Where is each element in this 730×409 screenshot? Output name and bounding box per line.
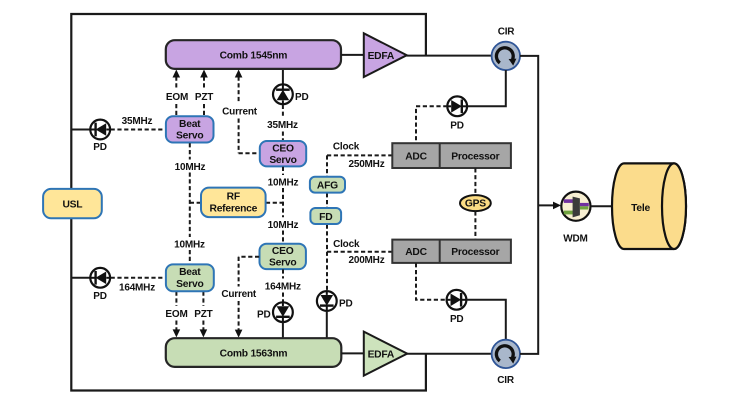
- svg-text:10MHz: 10MHz: [268, 220, 299, 231]
- svg-text:Clock: Clock: [333, 239, 360, 250]
- svg-text:Processor: Processor: [451, 152, 499, 163]
- wire: mid PD to CEO Servo dashed, 35MHz: [282, 105, 284, 141]
- wire: PD to comb1563 (solid, right): [326, 311, 328, 338]
- svg-text:164MHz: 164MHz: [265, 281, 301, 292]
- Comb 1545nm box: [166, 40, 341, 69]
- svg-text:Servo: Servo: [176, 279, 203, 290]
- svg-text:PD: PD: [93, 142, 107, 153]
- photodiode PD (bottom-left): [90, 268, 110, 288]
- telescope Tele (cylinder): [612, 163, 686, 249]
- svg-text:EDFA: EDFA: [368, 51, 395, 62]
- Beat Servo box (bottom): [166, 264, 214, 291]
- Beat Servo box (top): [166, 116, 214, 142]
- wire: FD chain vertical: [326, 155, 328, 290]
- wire: CIR outputs to WDM trunk: [520, 56, 538, 354]
- wire: PD to CIR (solid, bottom-right): [466, 300, 506, 340]
- svg-text:Comb 1563nm: Comb 1563nm: [220, 349, 288, 360]
- wire: EDFA to CIR (solid, bottom): [407, 353, 492, 355]
- svg-text:200MHz: 200MHz: [348, 255, 384, 266]
- RF Reference box: [201, 188, 266, 218]
- svg-text:GPS: GPS: [465, 199, 486, 210]
- amplifier EDFA (top): [364, 33, 407, 77]
- svg-text:10MHz: 10MHz: [175, 162, 206, 173]
- svg-text:PD: PD: [93, 291, 107, 302]
- wire: GPS to Processor (dashed, bottom): [474, 211, 476, 239]
- AFG box: [310, 177, 345, 193]
- wire: 10MHz left vertical chain: [190, 143, 201, 264]
- svg-text:164MHz: 164MHz: [119, 283, 155, 294]
- svg-text:PD: PD: [295, 92, 309, 103]
- svg-text:Comb 1545nm: Comb 1545nm: [220, 51, 288, 62]
- wire: EOM dashed (bottom): [173, 292, 181, 338]
- svg-text:AFG: AFG: [317, 181, 338, 192]
- amplifier EDFA (bottom): [364, 332, 407, 376]
- wire: EDFA to CIR (solid, passes border): [407, 55, 492, 57]
- photodiode PD (bottom-right): [447, 290, 467, 310]
- wire: top PD to Beat Servo (dashed, 35MHz): [111, 129, 166, 131]
- wire: CIR down to PD (solid): [467, 70, 506, 106]
- wire: PD to ADC (dashed): [416, 106, 447, 143]
- svg-text:WDM: WDM: [563, 234, 587, 245]
- wire: PZT dashed (top): [200, 70, 208, 116]
- svg-text:EDFA: EDFA: [368, 350, 395, 361]
- wire: bottom PD to Beat Servo (dashed, 164MHz): [111, 277, 166, 279]
- wire: comb1563 to EDFA (solid): [341, 352, 364, 354]
- FD box: [310, 208, 341, 224]
- USL box: [43, 189, 102, 218]
- svg-text:CIR: CIR: [497, 375, 515, 386]
- svg-text:EOM: EOM: [165, 309, 187, 320]
- GPS ellipse: [460, 195, 491, 211]
- svg-text:ADC: ADC: [405, 247, 427, 258]
- svg-text:Servo: Servo: [269, 258, 296, 269]
- wire: Current (top): [235, 70, 260, 154]
- wire: comb1545 to EDFA (solid): [341, 54, 364, 56]
- svg-text:35MHz: 35MHz: [267, 120, 298, 131]
- photodiode PD (top-middle): [273, 84, 293, 104]
- svg-text:Reference: Reference: [210, 203, 258, 214]
- svg-text:Clock: Clock: [333, 142, 360, 153]
- wire: Current (bottom): [235, 257, 259, 338]
- circulator CIR (bottom): [492, 340, 520, 368]
- svg-text:250MHz: 250MHz: [348, 159, 384, 170]
- circulator CIR (top): [492, 42, 520, 70]
- wire: EOM dashed (top): [173, 70, 181, 116]
- photodiode PD (top-right): [447, 96, 467, 116]
- svg-text:EOM: EOM: [166, 92, 188, 103]
- svg-text:CEO: CEO: [272, 246, 294, 257]
- CEO Servo box (top): [260, 141, 306, 166]
- wire: USL to top PD (solid): [71, 129, 90, 131]
- wire: comb1545 to mid PD (solid): [282, 69, 284, 85]
- svg-text:PD: PD: [450, 314, 464, 325]
- svg-text:FD: FD: [319, 212, 332, 223]
- svg-text:PD: PD: [339, 299, 353, 310]
- Comb 1563nm box: [166, 338, 341, 367]
- svg-text:PD: PD: [257, 309, 271, 320]
- svg-text:PZT: PZT: [194, 309, 212, 320]
- photodiode PD (bottom-middle): [273, 302, 293, 322]
- CEO Servo box (bottom): [260, 244, 306, 269]
- wire: PD to comb1563 (solid): [282, 322, 284, 337]
- wire: ADC to PD (dashed, bottom-right): [416, 263, 447, 300]
- svg-text:Servo: Servo: [269, 155, 296, 166]
- svg-text:10MHz: 10MHz: [268, 177, 299, 188]
- svg-text:RF: RF: [227, 191, 240, 202]
- svg-text:Servo: Servo: [176, 131, 203, 142]
- svg-text:PZT: PZT: [195, 92, 213, 103]
- svg-text:CEO: CEO: [272, 143, 294, 154]
- ADC + Processor box (bottom): [392, 240, 511, 263]
- svg-text:Current: Current: [222, 107, 258, 118]
- svg-text:PD: PD: [450, 121, 464, 132]
- photodiode PD (bottom-mid-right): [317, 291, 337, 311]
- ADC + Processor box (top): [392, 143, 511, 168]
- wire: Processor to GPS (dashed, top): [474, 168, 476, 194]
- svg-text:Current: Current: [221, 289, 257, 300]
- wire: USL to bottom PD (solid): [71, 277, 90, 279]
- svg-text:ADC: ADC: [405, 152, 427, 163]
- wire: PZT dashed (bottom): [200, 292, 208, 338]
- svg-text:35MHz: 35MHz: [122, 116, 153, 127]
- wire: Clock 200MHz (dashed): [327, 251, 392, 253]
- photodiode PD (top-left): [90, 120, 110, 140]
- svg-text:Processor: Processor: [451, 247, 499, 258]
- wire: WDM to Tele (solid): [591, 205, 613, 207]
- wire: Clock 250MHz (dashed): [327, 154, 392, 156]
- enclosure border: [71, 14, 426, 391]
- svg-text:Tele: Tele: [631, 203, 650, 214]
- wire: arrow into WDM: [538, 202, 561, 210]
- svg-text:CIR: CIR: [498, 27, 516, 38]
- WDM circle: [561, 192, 590, 221]
- svg-text:10MHz: 10MHz: [174, 240, 205, 251]
- svg-text:USL: USL: [62, 200, 82, 211]
- svg-text:Beat: Beat: [179, 119, 201, 130]
- svg-text:Beat: Beat: [179, 267, 201, 278]
- wire: 10MHz right vertical chain: [266, 167, 283, 244]
- wire: CEO Servo to PD dashed, 164MHz: [282, 269, 284, 301]
